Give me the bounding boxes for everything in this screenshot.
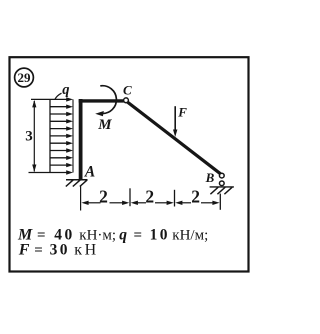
svg-text:F: F (177, 104, 187, 119)
support B rollers (219, 173, 224, 185)
member AC column (79, 99, 83, 180)
hinge C (124, 98, 129, 103)
dimension tick 3 (174, 190, 176, 207)
dimension tick 2 (129, 188, 131, 206)
svg-text:3: 3 (25, 129, 33, 145)
dimension segment 1-2 (131, 201, 174, 205)
svg-text:C: C (123, 83, 132, 98)
svg-text:30: 30 (50, 241, 70, 258)
svg-text:кН/м;: кН/м; (172, 227, 208, 243)
svg-text:q: q (119, 226, 127, 243)
svg-text:F: F (18, 241, 30, 258)
problem number 29 (15, 68, 34, 87)
dimension tick 4 (219, 194, 221, 210)
extension line below A (80, 186, 82, 211)
svg-text:A: A (84, 164, 95, 181)
svg-text:B: B (205, 170, 215, 185)
svg-text:кН: кН (74, 241, 99, 258)
given data text line 2 (18, 241, 99, 258)
svg-text:2: 2 (145, 186, 154, 206)
dimension 3 vertical (32, 100, 36, 172)
svg-text:2: 2 (191, 186, 200, 206)
svg-text:M: M (97, 117, 112, 133)
support B ground and hatching (210, 187, 234, 194)
member top beam to C (79, 99, 124, 102)
svg-text:10: 10 (150, 226, 170, 243)
support A hatching (66, 180, 88, 187)
given data text line 1 (17, 226, 208, 243)
moment M arc (95, 86, 116, 117)
force F (173, 106, 177, 137)
dimension segment A-1 (81, 201, 129, 205)
dimension segment 2-B (175, 201, 219, 205)
svg-text:=: = (34, 242, 43, 258)
member CB (127, 102, 220, 174)
svg-text:2: 2 (99, 186, 108, 206)
label q with leader (55, 82, 70, 99)
distributed load q band (29, 97, 74, 175)
svg-text:29: 29 (18, 70, 32, 85)
svg-text:=: = (37, 227, 46, 243)
svg-text:q: q (62, 82, 69, 98)
svg-text:=: = (134, 227, 143, 243)
